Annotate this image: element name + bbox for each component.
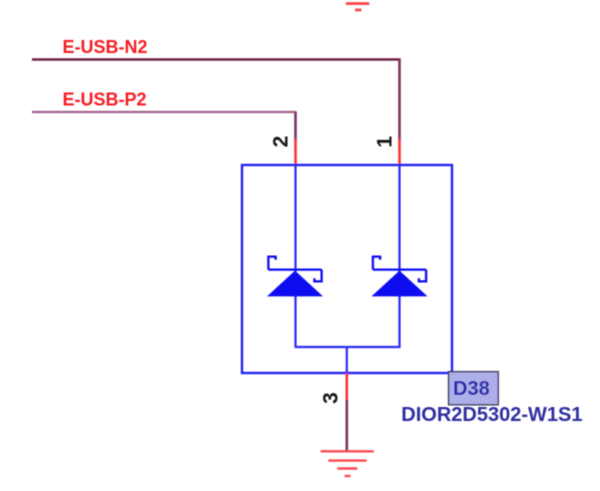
- pin 2 stub: [294, 139, 297, 165]
- wire E-USB-N2 horizontal: [32, 58, 401, 61]
- svg-text:DIOR2D5302-W1S1: DIOR2D5302-W1S1: [401, 404, 582, 426]
- component D38 body outline: [242, 165, 452, 373]
- svg-text:E-USB-P2: E-USB-P2: [63, 90, 147, 110]
- wire E-USB-P2 horizontal: [32, 111, 297, 113]
- wire branch pin1 inside: [398, 165, 400, 347]
- svg-text:E-USB-N2: E-USB-N2: [63, 37, 148, 57]
- diode D38a (left TVS): [268, 257, 321, 282]
- wire branch pin2 inside: [294, 165, 296, 347]
- wire ground vertical: [345, 400, 348, 451]
- pin 3 stub: [345, 373, 348, 400]
- ground (top, partial): [346, 4, 370, 10]
- ground (bottom): [321, 451, 374, 476]
- wire E-USB-N2 vertical: [398, 60, 401, 140]
- pin 1 stub: [398, 139, 401, 165]
- wire E-USB-P2 vertical: [294, 112, 297, 140]
- svg-text:1: 1: [374, 136, 397, 148]
- svg-text:D38: D38: [453, 378, 490, 400]
- wire center stub inside: [346, 347, 348, 373]
- svg-text:2: 2: [270, 136, 293, 148]
- reference designator highlight box: [449, 372, 499, 405]
- wire bottom bar inside: [295, 346, 401, 348]
- diode D38b (right TVS): [373, 257, 426, 282]
- svg-text:3: 3: [320, 392, 343, 404]
